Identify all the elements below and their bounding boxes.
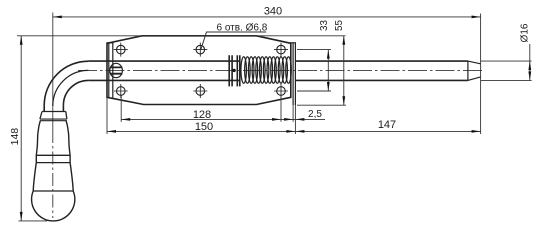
spring coil xyxy=(241,57,291,84)
handle ball xyxy=(32,191,75,221)
dim 33 top arrow xyxy=(327,50,330,59)
dim 55 bottom arrow xyxy=(342,96,345,105)
extension line hole col left xyxy=(120,96,122,122)
dim 2,5 right arrow xyxy=(295,118,304,121)
svg-text:148: 148 xyxy=(9,128,21,146)
extension line hole row top right xyxy=(297,49,331,51)
left bracket xyxy=(107,43,114,99)
hole top-middle xyxy=(193,43,207,57)
knob end cap ellipse xyxy=(110,63,123,77)
collar xyxy=(40,112,67,121)
extension line hole row bottom right xyxy=(297,90,331,92)
knob end cap bands xyxy=(110,67,122,73)
extension line plate left edge down xyxy=(106,97,108,134)
dim 33 bottom arrow xyxy=(327,82,330,91)
wire rod top edge xyxy=(88,60,468,62)
dim 147 left arrow xyxy=(295,130,304,133)
dim 128 left arrow xyxy=(121,118,130,121)
elbow inner arc xyxy=(63,80,88,105)
tube vertical right edge xyxy=(62,105,64,111)
extension line bracket right down A xyxy=(292,105,294,122)
wire rod bottom edge xyxy=(88,79,468,81)
svg-text:6 отв. Ø6,8: 6 отв. Ø6,8 xyxy=(217,22,268,33)
rod tip chamfer xyxy=(468,61,481,80)
plate outline xyxy=(107,36,291,105)
extension line bracket right down B xyxy=(294,105,296,134)
dim O16 bottom arrow xyxy=(528,71,531,80)
dim 2,5 left arrow xyxy=(284,118,293,121)
spring left washers xyxy=(229,55,240,86)
svg-text:33: 33 xyxy=(319,20,330,31)
dim 150 right arrow xyxy=(286,130,295,133)
dim 150-147 line xyxy=(107,130,481,132)
dim 340 right arrow xyxy=(472,16,481,19)
handle profile xyxy=(33,121,73,191)
dim 147 right arrow xyxy=(472,130,481,133)
svg-text:128: 128 xyxy=(193,109,211,121)
hole top-left xyxy=(114,43,128,57)
dim 55 line xyxy=(343,36,345,105)
dim 55 top arrow xyxy=(342,36,345,45)
dim 128 line xyxy=(121,118,325,120)
svg-text:340: 340 xyxy=(264,6,282,18)
svg-text:150: 150 xyxy=(195,121,213,133)
elbow outer arc xyxy=(44,61,88,105)
extension line rod end xyxy=(480,14,482,135)
hole bottom-middle xyxy=(193,84,207,98)
svg-text:2,5: 2,5 xyxy=(308,109,322,120)
extension line hole col right xyxy=(280,96,282,122)
tube vertical left edge xyxy=(43,105,45,111)
hole top-right xyxy=(274,43,288,57)
hole bottom-right xyxy=(274,84,288,98)
dim O16 line xyxy=(529,44,531,80)
dim 148 line xyxy=(20,36,22,221)
dim 148 top arrow xyxy=(20,36,23,45)
centerline horizontal axis xyxy=(78,69,485,71)
svg-text:55: 55 xyxy=(334,20,345,31)
dim 148 bottom arrow xyxy=(20,212,23,221)
svg-text:147: 147 xyxy=(378,119,396,131)
dim 33 line xyxy=(327,50,329,91)
extension line handle bottom xyxy=(19,220,48,222)
handle ring xyxy=(36,155,70,162)
dim O16 top arrow xyxy=(528,61,531,70)
right bracket xyxy=(290,43,296,105)
extension line plate bottom right xyxy=(297,104,346,106)
dim 340 line xyxy=(53,16,481,18)
extension line top shared xyxy=(17,35,346,37)
dim 150 left arrow xyxy=(107,130,116,133)
centerline handle vertical axis xyxy=(52,13,54,131)
elbow middle arc xyxy=(53,70,89,106)
svg-text:Ø16: Ø16 xyxy=(519,23,530,42)
retaining pin dot xyxy=(232,69,235,72)
handle ball chord xyxy=(33,190,73,192)
leader 6 holes xyxy=(201,32,266,49)
rod extension thin lines right xyxy=(481,61,532,80)
dim 340 left arrow xyxy=(53,16,62,19)
hole bottom-left xyxy=(114,84,128,98)
dim 128 right arrow xyxy=(272,118,281,121)
